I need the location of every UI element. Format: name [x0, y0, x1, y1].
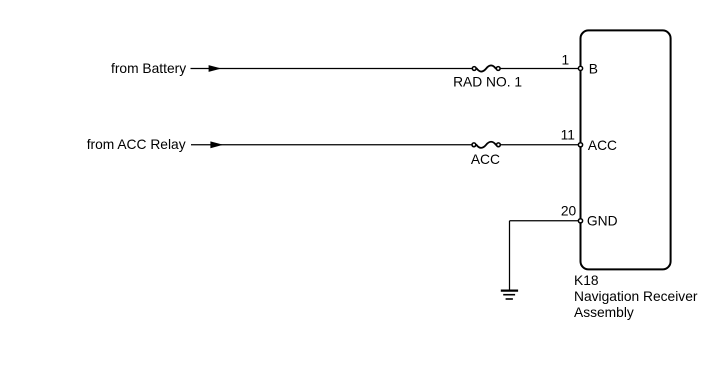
- pin 1 terminal circle: [578, 66, 582, 70]
- pin 11 terminal circle: [578, 143, 582, 147]
- svg-text:ACC: ACC: [471, 152, 500, 167]
- svg-text:ACC: ACC: [588, 138, 617, 153]
- svg-text:Navigation Receiver: Navigation Receiver: [574, 289, 698, 304]
- fuse RAD NO. 1 left terminal circle: [472, 67, 476, 71]
- connector body K18 Navigation Receiver Assembly: [581, 30, 671, 269]
- wire: vertical drop to ground: [509, 221, 511, 290]
- svg-text:20: 20: [561, 203, 577, 218]
- svg-text:Assembly: Assembly: [574, 305, 634, 320]
- fuse RAD NO. 1 right terminal circle: [496, 67, 500, 71]
- svg-text:RAD NO. 1: RAD NO. 1: [453, 75, 522, 90]
- svg-text:1: 1: [562, 52, 570, 67]
- svg-text:B: B: [589, 61, 598, 76]
- wire: pin 20 to ground drop: [510, 220, 580, 222]
- fuse RAD NO. 1 element (s-curve): [477, 65, 496, 71]
- svg-text:K18: K18: [574, 273, 599, 288]
- svg-text:from ACC Relay: from ACC Relay: [87, 137, 186, 152]
- pin 20 terminal circle: [578, 219, 582, 223]
- wire: fuse RAD NO. 1 to pin 1: [498, 68, 579, 70]
- fuse ACC right terminal circle: [497, 143, 501, 147]
- svg-text:from Battery: from Battery: [111, 61, 186, 76]
- fuse ACC left terminal circle: [472, 143, 476, 147]
- svg-text:11: 11: [561, 127, 575, 142]
- ground symbol: [501, 291, 518, 299]
- arrow: flow direction on battery wire: [209, 65, 222, 72]
- arrow: flow direction on ACC wire: [210, 141, 223, 148]
- wire: battery feed to fuse RAD NO. 1: [191, 68, 475, 70]
- wire: fuse ACC to pin 11: [498, 144, 579, 146]
- svg-text:GND: GND: [587, 213, 618, 228]
- fuse ACC element (s-curve): [476, 142, 496, 148]
- wire: ACC relay feed to fuse ACC: [191, 144, 474, 146]
